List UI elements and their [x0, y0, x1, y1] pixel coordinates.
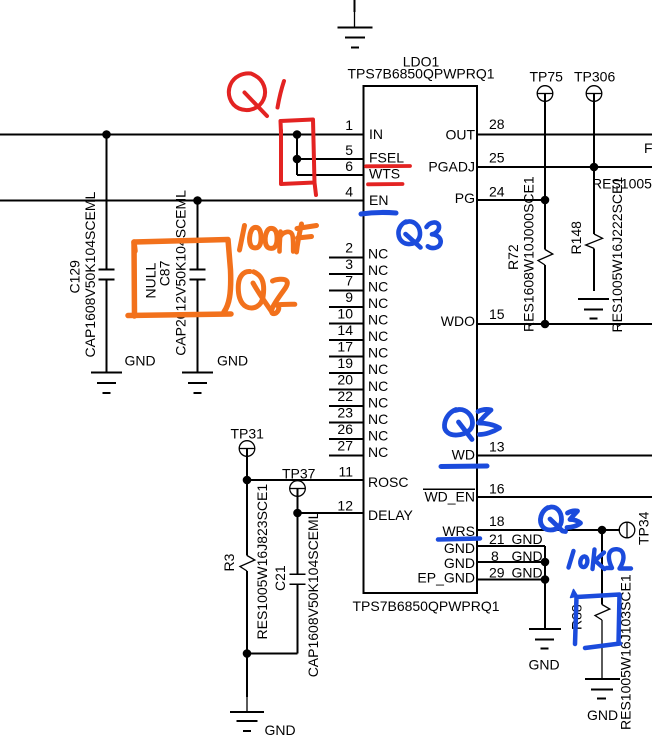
pin 12 DELAY: [337, 498, 413, 524]
node TP31-ROSC: [243, 476, 252, 485]
svg-text:10: 10: [337, 306, 353, 322]
annotation underline WD (blue): [441, 464, 487, 470]
pin 25 PGADJ: [428, 150, 504, 175]
svg-text:NC: NC: [368, 328, 388, 344]
value RES1005W16J823SCE1: [254, 484, 270, 640]
svg-text:25: 25: [489, 150, 505, 166]
label NULL: [142, 262, 158, 298]
svg-text:3: 3: [345, 256, 353, 272]
svg-text:R148: R148: [568, 221, 584, 255]
annotation Q2 (orange): [238, 271, 295, 313]
wire EN net: [0, 200, 364, 202]
svg-text:TPS7B6850QPWPRQ1: TPS7B6850QPWPRQ1: [352, 598, 499, 614]
value CAP1608V50K104SCEML: [305, 511, 321, 677]
svg-text:R72: R72: [505, 244, 521, 270]
svg-text:OUT: OUT: [445, 127, 475, 143]
svg-text:22: 22: [337, 388, 353, 404]
svg-text:26: 26: [337, 421, 353, 437]
svg-text:NC: NC: [368, 411, 388, 427]
pin 24 PG: [455, 184, 505, 207]
pin 21 GND: [444, 531, 543, 556]
svg-text:27: 27: [337, 438, 353, 454]
svg-text:GND: GND: [587, 707, 618, 723]
svg-text:RES1005W16J823SCE1: RES1005W16J823SCE1: [254, 484, 270, 640]
annotation Q1 box (red): [281, 120, 317, 196]
testpoint TP34: [619, 511, 651, 545]
pin 27 NC: [329, 438, 388, 460]
annotation Q3 near WRS (blue): [540, 507, 580, 532]
pin 6 WTS: [345, 158, 400, 182]
annotation Q1 text (red): [229, 73, 284, 116]
pin 14 NC: [329, 322, 388, 344]
svg-text:TP31: TP31: [231, 426, 265, 442]
svg-text:2: 2: [345, 240, 353, 256]
wire FSEL stub: [297, 158, 364, 160]
wire GND bus vertical: [544, 546, 546, 629]
svg-text:6: 6: [345, 158, 353, 174]
pin 28 OUT: [445, 116, 504, 143]
annotation Q2 box (orange): [128, 240, 231, 317]
pin 17 NC: [329, 339, 388, 361]
svg-text:EN: EN: [369, 192, 388, 208]
svg-text:WDO: WDO: [441, 313, 475, 329]
svg-text:23: 23: [337, 405, 353, 421]
svg-text:RES1005W16J222SCE1: RES1005W16J222SCE1: [609, 177, 625, 333]
node WDO-R72: [541, 320, 550, 329]
node R3-C21: [243, 649, 252, 658]
svg-text:NC: NC: [368, 312, 388, 328]
wire PGADJ net: [477, 166, 652, 168]
svg-text:20: 20: [337, 372, 353, 388]
svg-text:WD_EN: WD_EN: [424, 489, 475, 505]
pin 15 WDO: [441, 306, 505, 329]
node GND29-bus: [541, 575, 550, 584]
svg-text:GND: GND: [125, 353, 156, 369]
svg-text:PGADJ: PGADJ: [428, 159, 475, 175]
svg-text:TP34: TP34: [636, 511, 652, 545]
node IN-C129: [102, 130, 111, 139]
svg-text:RES1608W10J000SCE1: RES1608W10J000SCE1: [521, 176, 537, 332]
svg-text:21: 21: [489, 531, 505, 547]
svg-text:13: 13: [489, 439, 505, 455]
resistor R148: [586, 167, 603, 291]
node EN-C87: [193, 196, 202, 205]
pin 13 WD: [452, 439, 505, 463]
ground R88: [585, 679, 620, 723]
pin 22 NC: [329, 388, 388, 410]
node WRS-R88: [598, 526, 607, 535]
svg-text:F: F: [644, 140, 652, 156]
pin 26 NC: [329, 421, 388, 443]
svg-text:NC: NC: [368, 394, 388, 410]
node DELAY-C21: [293, 509, 302, 518]
pin 23 NC: [329, 405, 388, 427]
svg-text:19: 19: [337, 355, 353, 371]
svg-text:WD: WD: [452, 447, 475, 463]
svg-text:29: 29: [489, 565, 505, 581]
svg-text:C129: C129: [66, 260, 82, 294]
svg-text:CAP1608V50K104SCEML: CAP1608V50K104SCEML: [305, 511, 321, 677]
annotation R88 box (blue): [571, 590, 621, 649]
ground top: [338, 0, 373, 48]
value RES1005W16J103SCE1: [618, 574, 634, 730]
wire DELAY: [298, 512, 364, 514]
value CAP2012V50K104SCEML: [173, 190, 189, 356]
svg-text:GND: GND: [444, 540, 475, 556]
value RES1608W10J000SCE1: [521, 176, 537, 332]
svg-text:18: 18: [489, 513, 505, 529]
ground C87: [182, 353, 248, 394]
svg-text:C21: C21: [272, 565, 288, 591]
resistor R72: [538, 200, 553, 324]
annotation underline EN (blue): [361, 212, 396, 214]
svg-text:9: 9: [345, 289, 353, 305]
pin 3 NC: [329, 256, 388, 278]
testpoint TP306: [574, 69, 615, 168]
pin 11 ROSC: [338, 464, 408, 491]
pin 1 IN: [345, 117, 383, 142]
value CAP1608V50K104SCEML: [82, 192, 98, 358]
svg-text:NC: NC: [368, 262, 388, 278]
testpoint TP31: [231, 426, 265, 481]
svg-text:IN: IN: [369, 126, 383, 142]
wire IN net: [0, 134, 364, 136]
pin 10 NC: [329, 306, 388, 328]
svg-text:24: 24: [489, 184, 505, 200]
svg-text:14: 14: [337, 322, 353, 338]
svg-text:DELAY: DELAY: [368, 507, 414, 523]
pin 29 EP_GND: [417, 565, 542, 586]
svg-text:NC: NC: [368, 378, 388, 394]
pin 9 NC: [329, 289, 388, 311]
pin 19 NC: [329, 355, 388, 377]
label RES1005 (cut at edge): [592, 176, 652, 192]
wire PG stub: [477, 199, 545, 201]
annotation underline FSEL (red): [366, 164, 410, 168]
label C21: [272, 565, 288, 591]
svg-text:TPS7B6850QPWPRQ1: TPS7B6850QPWPRQ1: [347, 66, 494, 82]
ground GND bus: [529, 629, 562, 673]
resistor R3: [240, 480, 255, 654]
svg-text:7: 7: [345, 273, 353, 289]
svg-text:GND: GND: [529, 657, 560, 673]
svg-text:CAP1608V50K104SCEML: CAP1608V50K104SCEML: [82, 192, 98, 358]
svg-text:NC: NC: [368, 279, 388, 295]
node IN-vert: [293, 130, 302, 139]
svg-text:12: 12: [337, 498, 353, 514]
svg-text:FSEL: FSEL: [369, 150, 404, 166]
node GND8-bus: [541, 558, 550, 567]
svg-text:C87: C87: [157, 260, 173, 286]
svg-text:NC: NC: [368, 427, 388, 443]
svg-text:EP_GND: EP_GND: [417, 570, 475, 586]
IC LDO1 TPS7B6850QPWPRQ1: [347, 54, 499, 615]
svg-text:GND: GND: [265, 722, 296, 738]
svg-text:TP306: TP306: [574, 69, 615, 85]
svg-text:GND: GND: [512, 531, 543, 547]
resistor R88: [595, 530, 610, 679]
svg-text:16: 16: [489, 481, 505, 497]
annotation underline WRS (blue): [438, 539, 480, 540]
svg-text:NC: NC: [368, 246, 388, 262]
svg-text:NC: NC: [368, 361, 388, 377]
svg-text:NC: NC: [368, 295, 388, 311]
value RES1005W16J222SCE1: [609, 177, 625, 333]
label R72: [505, 244, 521, 270]
svg-text:17: 17: [337, 339, 353, 355]
wire R3 to C21 bottom: [247, 653, 298, 655]
wire ROSC: [247, 479, 364, 481]
wire WD_EN net: [477, 496, 652, 498]
svg-text:TP75: TP75: [530, 69, 564, 85]
net label F (cut at edge): [644, 140, 652, 156]
annotation underline WTS (red): [368, 182, 403, 186]
svg-text:NC: NC: [368, 345, 388, 361]
wire GND8 stub: [477, 561, 545, 563]
svg-text:15: 15: [489, 306, 505, 322]
pin 7 NC: [329, 273, 388, 295]
capacitor C87: [190, 201, 206, 373]
svg-text:PG: PG: [455, 190, 475, 206]
ground R3: [230, 654, 296, 739]
svg-text:1: 1: [345, 117, 353, 133]
svg-text:R3: R3: [221, 553, 237, 571]
pin 2 NC: [329, 240, 388, 262]
wire WD net: [477, 455, 652, 457]
svg-text:4: 4: [345, 184, 353, 200]
label C129: [66, 260, 82, 294]
capacitor C21: [290, 513, 306, 654]
pin 18 WRS: [442, 513, 504, 539]
wire WTS stub: [297, 174, 364, 176]
label R88: [569, 604, 585, 630]
wire GND21 stub: [477, 545, 545, 547]
wire GND29 stub: [477, 579, 545, 581]
svg-text:TP37: TP37: [282, 466, 316, 482]
svg-text:GND: GND: [512, 565, 543, 581]
testpoint TP37: [282, 466, 316, 514]
label R3: [221, 553, 237, 571]
svg-text:CAP2012V50K104SCEML: CAP2012V50K104SCEML: [173, 190, 189, 356]
wire vertical IN to WTS: [296, 135, 298, 176]
wire OUT net: [477, 134, 652, 136]
wire WDO net: [477, 323, 652, 325]
svg-text:ROSC: ROSC: [368, 474, 408, 490]
ground R148: [578, 299, 609, 319]
wire WRS stub: [477, 529, 620, 531]
pin 8 GND: [444, 548, 543, 571]
svg-text:5: 5: [345, 142, 353, 158]
label R148: [568, 221, 584, 255]
svg-text:28: 28: [489, 116, 505, 132]
node FSEL-vert: [293, 155, 302, 164]
ground C129: [91, 353, 156, 394]
annotation Q3 near EN (blue): [398, 221, 440, 248]
svg-text:NC: NC: [368, 444, 388, 460]
pin 4 EN: [345, 184, 388, 209]
pin 20 NC: [329, 372, 388, 394]
capacitor C129: [99, 135, 115, 373]
annotation 10kohm (blue): [569, 549, 632, 569]
svg-text:GND: GND: [217, 353, 248, 369]
pin 5 FSEL: [345, 142, 404, 166]
testpoint TP75: [530, 69, 564, 201]
node PG-TP75: [541, 196, 550, 205]
node PGADJ-TP306: [590, 163, 599, 172]
label C87: [157, 260, 173, 286]
annotation Q3 near WD (blue): [444, 409, 499, 439]
svg-text:11: 11: [338, 464, 353, 480]
annotation 100nF (orange): [240, 224, 317, 252]
pin 16 WD_EN: [423, 481, 505, 505]
